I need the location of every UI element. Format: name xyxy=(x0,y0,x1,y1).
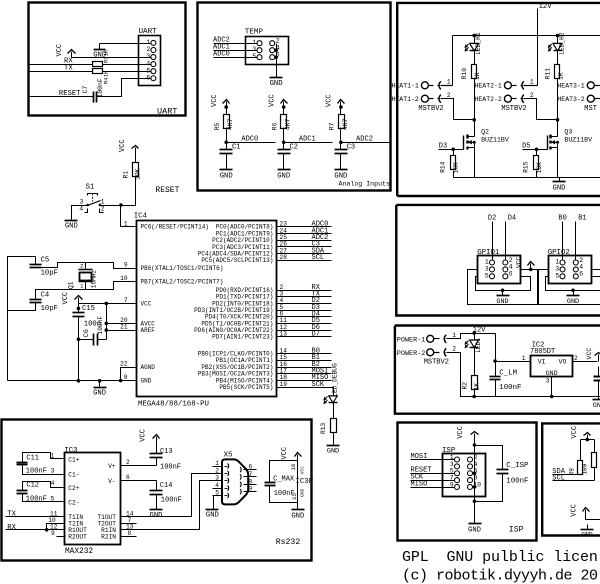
svg-text:PD7(AIN1/PCINT23): PD7(AIN1/PCINT23) xyxy=(212,334,273,341)
svg-text:VCC: VCC xyxy=(570,504,578,517)
pin 17 PB3(MOSI/OC2A/PCINT3) net MOSI xyxy=(277,373,332,375)
svg-text:VCC: VCC xyxy=(326,94,334,107)
svg-text:D2: D2 xyxy=(488,214,496,222)
wire HEAT2-2 to Q3 drain xyxy=(524,99,558,120)
capacitor C_ISP 100nF xyxy=(475,446,503,470)
frame UART section xyxy=(29,3,186,116)
svg-text:7: 7 xyxy=(249,471,253,478)
svg-text:Q1: Q1 xyxy=(68,281,75,289)
svg-text:100nF: 100nF xyxy=(160,463,181,471)
pin 27 PC4(ADC4/SDA/PCINT12) net SDA xyxy=(277,253,332,255)
svg-text:3: 3 xyxy=(252,46,256,53)
svg-text:1K: 1K xyxy=(104,49,110,56)
svg-text:IC4: IC4 xyxy=(134,213,148,221)
ground GND (leg ADC2) xyxy=(335,169,348,171)
svg-text:13: 13 xyxy=(280,331,288,338)
pin 26 PC3(ADC3/PCINT11) net C3 xyxy=(277,246,332,248)
wire C3 to GND xyxy=(340,154,342,170)
svg-text:R15: R15 xyxy=(523,161,530,172)
svg-text:100nF: 100nF xyxy=(274,490,295,498)
svg-text:3: 3 xyxy=(215,475,219,482)
power VCC (IC2 out) xyxy=(598,355,600,362)
svg-text:7805DT: 7805DT xyxy=(530,348,555,356)
wire LED to R13 xyxy=(333,403,335,419)
svg-text:12V: 12V xyxy=(539,3,553,11)
svg-text:MSTBV2: MSTBV2 xyxy=(501,105,526,113)
svg-text:C15: C15 xyxy=(82,305,95,313)
frame ISP section xyxy=(398,423,537,541)
svg-text:LED_H1: LED_H1 xyxy=(475,32,482,55)
resistor R3 xyxy=(93,62,103,67)
svg-text:2: 2 xyxy=(215,467,219,474)
svg-text:MEGA48/88/168-PU: MEGA48/88/168-PU xyxy=(138,400,209,408)
svg-text:R2IN: R2IN xyxy=(101,534,116,541)
svg-text:100nF: 100nF xyxy=(97,78,104,97)
wire Q2 source to rail xyxy=(474,152,476,178)
svg-text:3: 3 xyxy=(146,53,150,60)
svg-text:Q3: Q3 xyxy=(564,128,572,135)
wire R13 to GND xyxy=(333,433,335,446)
svg-text:1: 1 xyxy=(252,39,256,46)
ground GND (C14) xyxy=(150,509,163,511)
svg-text:GND: GND xyxy=(553,185,566,193)
svg-text:2: 2 xyxy=(126,459,130,466)
svg-text:2: 2 xyxy=(276,37,280,44)
svg-text:R6: R6 xyxy=(271,122,278,130)
resistor R15 10K xyxy=(536,150,538,156)
svg-text:VCC: VCC xyxy=(516,257,523,268)
resistor R1 10K xyxy=(133,163,139,177)
svg-text:GND: GND xyxy=(93,390,106,398)
ground GND (I2C lower) xyxy=(587,525,589,530)
svg-text:VCC: VCC xyxy=(299,466,305,475)
svg-text:R7: R7 xyxy=(329,122,336,130)
resistor R10b (edge) xyxy=(592,453,597,468)
wire RX to R1OUT xyxy=(6,529,65,531)
svg-text:4: 4 xyxy=(51,480,55,487)
wire SCL xyxy=(553,480,595,482)
ground GND (IC3P) xyxy=(292,509,305,511)
wire VCC down through ISP to GND xyxy=(474,439,476,524)
pin 15 PB1(OC1A/PCINT1) net B1 xyxy=(277,360,332,362)
pin 10 PB7(XTAL2/TOSC2/PCINT7) xyxy=(114,281,137,283)
pin 18 PB4(MISO/PCINT4) net MISO xyxy=(277,380,332,382)
svg-text:GND: GND xyxy=(291,512,304,520)
pin 25 PC2(ADC2/PCINT10) net ADC2 xyxy=(277,240,332,242)
pin 3 PD1(TXD/PCINT17) net TX xyxy=(277,296,332,298)
svg-text:5: 5 xyxy=(555,272,559,279)
pin 21 AREF xyxy=(107,330,137,332)
pin 23 PC0(ADC0/PCINT8) net ADC0 xyxy=(277,226,332,228)
wire B1 to GPIO2 pin2 xyxy=(575,222,577,261)
svg-text:1: 1 xyxy=(80,283,84,290)
svg-text:SCL: SCL xyxy=(552,475,565,483)
svg-text:VCC: VCC xyxy=(457,426,465,439)
svg-text:5: 5 xyxy=(146,67,150,74)
svg-text:Rs232: Rs232 xyxy=(276,538,301,547)
svg-text:C1-: C1- xyxy=(68,472,79,479)
svg-text:1: 1 xyxy=(51,453,55,460)
wire XTAL1 net xyxy=(36,263,137,269)
pin 19 PB5(SCK/PCINT5) net SCK xyxy=(277,387,332,389)
svg-text:100nF: 100nF xyxy=(97,316,104,335)
svg-text:PB7(XTAL2/TOSC2/PCINT7): PB7(XTAL2/TOSC2/PCINT7) xyxy=(141,278,224,285)
svg-text:C12: C12 xyxy=(26,481,39,489)
pin X5-9 xyxy=(244,491,257,493)
wire POWER-2 to GND rail xyxy=(447,353,600,397)
svg-text:R14: R14 xyxy=(439,161,446,172)
frame GPIO section xyxy=(396,205,600,316)
svg-text:ADC2: ADC2 xyxy=(356,136,373,144)
wire C5 top to gnd loop xyxy=(35,257,37,265)
svg-text:6: 6 xyxy=(249,464,253,471)
wire VCC loop GPIO2 xyxy=(539,270,600,305)
svg-text:GND: GND xyxy=(270,80,283,88)
svg-text:2: 2 xyxy=(146,46,150,53)
svg-text:AREF: AREF xyxy=(141,327,156,334)
svg-text:GND: GND xyxy=(65,222,78,230)
svg-text:RESET: RESET xyxy=(155,186,179,195)
wire AVCC riser xyxy=(106,304,108,340)
pin X5-1 xyxy=(213,466,222,468)
power VCC (GPIO) xyxy=(529,268,533,272)
svg-text:1: 1 xyxy=(124,220,128,227)
pin X5-5 xyxy=(213,495,222,497)
svg-text:6: 6 xyxy=(146,74,150,81)
pin 13 PD7(AIN1/PCINT23) net D7 xyxy=(277,336,332,338)
wire C1 to GND xyxy=(226,154,228,170)
svg-text:C1+: C1+ xyxy=(68,456,79,463)
wire GPIO1 pin4 to VCC and GPIO2 pin3 xyxy=(521,269,549,271)
pin 9 PB6(XTAL1/TOSC1/PCINT6) xyxy=(114,268,137,270)
wire gate D5 xyxy=(523,149,548,151)
wire HEAT1-1 to 12V rail xyxy=(441,85,453,87)
svg-text:C14: C14 xyxy=(160,482,173,490)
wire RX xyxy=(30,64,93,66)
wire VCC to R5 xyxy=(226,108,228,115)
wire D2 to GPIO1 pin1 xyxy=(492,222,494,261)
svg-text:C5: C5 xyxy=(41,256,50,264)
node ADC1 xyxy=(282,141,286,145)
svg-text:2: 2 xyxy=(452,346,456,353)
wire ADC0 to TEMP pin5 xyxy=(214,57,258,59)
svg-text:9: 9 xyxy=(249,486,253,493)
svg-text:VCC: VCC xyxy=(56,44,64,57)
resistor R9 100 xyxy=(578,461,583,475)
svg-text:C13: C13 xyxy=(160,448,173,456)
wire LED_H2 to R11 xyxy=(557,51,559,65)
svg-text:B0: B0 xyxy=(558,214,566,222)
svg-text:ADC0: ADC0 xyxy=(241,136,258,144)
svg-text:1: 1 xyxy=(447,79,451,86)
svg-text:PC6(/RESET/PCINT14): PC6(/RESET/PCINT14) xyxy=(141,224,209,231)
node reset junction xyxy=(119,203,123,207)
wire R7 to node xyxy=(340,128,342,143)
svg-text:4: 4 xyxy=(79,206,83,213)
svg-text:HEAT1-2: HEAT1-2 xyxy=(392,96,419,103)
wire GND loop GPIO2 xyxy=(546,277,600,291)
svg-text:1: 1 xyxy=(215,460,219,467)
wire pin1 VI xyxy=(496,361,531,363)
wire IC3P to GND xyxy=(297,461,299,510)
svg-text:GND: GND xyxy=(299,488,305,497)
node 12V xyxy=(472,331,476,335)
switch S1 pin2 stub xyxy=(100,209,104,213)
wire MISO xyxy=(411,487,455,489)
wire D4 to GPIO1 pin2 xyxy=(505,222,507,261)
capacitor C7 100nF xyxy=(93,92,95,103)
svg-text:LED_H2: LED_H2 xyxy=(559,32,566,55)
svg-text:C_MAX: C_MAX xyxy=(273,476,295,484)
ground GND (GPIO1) xyxy=(501,289,505,293)
wire T2OUT stub xyxy=(121,523,137,525)
wire net ADC2 xyxy=(341,142,391,144)
svg-text:10pF: 10pF xyxy=(41,305,58,313)
wire LED_H1 to R10 xyxy=(474,51,476,65)
frame Power section xyxy=(395,326,600,414)
wire VCC to pin7 xyxy=(79,303,137,305)
svg-text:UART: UART xyxy=(157,107,177,117)
pin 7 VCC xyxy=(79,303,137,305)
ground GND (TEMP) xyxy=(270,77,283,79)
wire net ADC1 xyxy=(284,142,333,144)
svg-text:4: 4 xyxy=(215,482,219,489)
svg-text:C_ISP: C_ISP xyxy=(506,462,529,470)
svg-text:GND: GND xyxy=(141,377,152,384)
svg-text:PB6(XTAL1/TOSC1/PCINT6): PB6(XTAL1/TOSC1/PCINT6) xyxy=(141,265,224,272)
wire SCK to LED_DEBUG xyxy=(332,388,334,396)
svg-text:VCC: VCC xyxy=(571,426,579,439)
svg-text:8: 8 xyxy=(124,374,128,381)
svg-text:HEAT2-2: HEAT2-2 xyxy=(475,96,502,103)
resistor R10 1K xyxy=(472,65,477,79)
switch S1 lever xyxy=(88,201,101,206)
pin 24 PC1(ADC1/PCINT9) net ADC1 xyxy=(277,233,332,235)
ground GND (C9) xyxy=(598,397,600,400)
wire RESET to C7 xyxy=(30,96,94,98)
svg-text:PB5(SCK/PCINT5): PB5(SCK/PCINT5) xyxy=(219,384,273,391)
svg-text:4: 4 xyxy=(146,60,150,67)
wire GND rail (IC4) xyxy=(8,380,121,382)
svg-text:HEAT1-1: HEAT1-1 xyxy=(392,83,419,90)
wire R10 to Q2 drain xyxy=(474,79,476,137)
svg-text:GND: GND xyxy=(277,173,290,181)
svg-text:GND: GND xyxy=(150,512,163,520)
svg-text:1K: 1K xyxy=(104,70,110,77)
ground GND (UART) xyxy=(99,44,101,50)
wire XTAL2 net xyxy=(36,282,137,300)
svg-text:VCC: VCC xyxy=(211,94,219,107)
transistor Q3 BUZ11BV xyxy=(547,136,549,150)
svg-text:GND: GND xyxy=(220,173,233,181)
pin X5-4 xyxy=(213,488,222,490)
svg-text:S1: S1 xyxy=(86,183,95,191)
svg-text:SCK: SCK xyxy=(312,381,325,389)
LED LED1 xyxy=(474,334,476,341)
svg-text:6: 6 xyxy=(126,474,130,481)
wire AGND hook xyxy=(121,368,137,381)
pin 28 PC5(ADC5/SCLPCINT13) net SCL xyxy=(277,260,332,262)
svg-text:IC3P: IC3P xyxy=(295,478,313,486)
svg-text:R10: R10 xyxy=(461,68,468,79)
resistor R4 xyxy=(93,69,103,74)
wire ADC2 to TEMP pin1 xyxy=(214,43,258,45)
svg-text:C11: C11 xyxy=(26,454,39,462)
pin 16 PB2(XSS/OC1B/PCINT2) net B2 xyxy=(277,367,332,369)
wire VCC to pullups xyxy=(581,439,595,441)
svg-text:1K: 1K xyxy=(558,72,565,80)
wire gate D3 xyxy=(439,149,464,151)
svg-text:VCC: VCC xyxy=(281,447,289,460)
pin 2 PD0(RXD/PCINT16) net RX xyxy=(277,290,332,292)
svg-text:MSTBV2: MSTBV2 xyxy=(418,105,443,113)
wire VCC to R6 xyxy=(283,108,285,115)
resistor R11 1K xyxy=(555,65,560,79)
svg-text:C3: C3 xyxy=(347,144,355,152)
transistor Q2 BUZ11BV xyxy=(463,136,465,150)
pin 14 PB0(ICP1/CLKO/PCINT0) net B0 xyxy=(277,353,332,355)
svg-text:Analog Inputs: Analog Inputs xyxy=(339,180,390,187)
frame Analog Inputs section xyxy=(198,3,391,191)
ground GND (GPIO2) xyxy=(571,289,575,293)
svg-text:100nF: 100nF xyxy=(26,496,47,504)
wire HEAT1-2 to Q2 drain xyxy=(441,99,475,120)
wire T2IN hook xyxy=(47,524,65,530)
svg-text:GND: GND xyxy=(206,512,219,520)
wire C4 bottom to gnd loop xyxy=(8,303,36,311)
svg-text:R11: R11 xyxy=(544,68,551,79)
pin X5-7 xyxy=(244,476,257,478)
svg-text:VCC: VCC xyxy=(119,139,127,152)
svg-text:100nF: 100nF xyxy=(161,497,182,505)
ground GND (IC4) xyxy=(99,381,101,388)
svg-text:1: 1 xyxy=(146,39,150,46)
pin 12 PD6(AIN0/OC0A/PCINT22) net D6 xyxy=(277,330,332,332)
wire C15 to gnd rail xyxy=(78,317,80,381)
svg-text:GND: GND xyxy=(581,532,592,539)
node ADC0 xyxy=(224,141,228,145)
wire X5 pin5 to GND xyxy=(213,496,215,510)
svg-text:TX: TX xyxy=(7,510,16,518)
svg-text:ADC1: ADC1 xyxy=(299,136,316,144)
svg-text:5: 5 xyxy=(485,272,489,279)
wire B0 to GPIO2 pin1 xyxy=(562,222,564,261)
svg-text:3: 3 xyxy=(80,199,84,206)
svg-text:6: 6 xyxy=(509,271,513,278)
wire VCC loop GPIO1 xyxy=(468,270,538,305)
wire S1 to GND xyxy=(72,206,88,221)
svg-text:TEMP: TEMP xyxy=(245,29,264,37)
pin 20 AVCC xyxy=(107,323,137,325)
svg-text:VCC: VCC xyxy=(140,429,148,442)
wire TEMP pins 2-4-6 to GND xyxy=(276,44,278,78)
svg-text:C2+: C2+ xyxy=(68,485,79,492)
wire R5 to node xyxy=(226,128,228,143)
wire ADC1 to TEMP pin3 xyxy=(214,50,258,52)
ground GND (heater) xyxy=(559,178,561,182)
svg-text:HEAT3-1: HEAT3-1 xyxy=(557,83,584,90)
svg-text:19: 19 xyxy=(280,381,288,388)
svg-text:LED1: LED1 xyxy=(475,338,482,353)
svg-text:R2: R2 xyxy=(462,382,469,390)
svg-text:6: 6 xyxy=(579,271,583,278)
wire pin2 VO to VCC xyxy=(573,361,598,363)
resistor R6 4K7 xyxy=(281,115,287,129)
wire SDA xyxy=(553,474,581,476)
resistor R5 4K7 xyxy=(224,115,230,129)
wire R3 to pin4 xyxy=(103,64,152,66)
svg-text:22: 22 xyxy=(120,361,128,368)
pin 6 PD4(T0/XCK/PCINT20) net D4 xyxy=(277,316,332,318)
resistor R2 1K xyxy=(472,376,478,390)
svg-text:2: 2 xyxy=(80,262,84,269)
svg-text:VCC: VCC xyxy=(586,348,593,360)
wire TX to T1IN xyxy=(6,516,65,518)
svg-text:16: 16 xyxy=(290,464,297,471)
svg-text:R2OUT: R2OUT xyxy=(68,534,87,541)
svg-text:MAX232: MAX232 xyxy=(65,548,93,556)
svg-text:VCC: VCC xyxy=(141,300,152,307)
svg-text:8: 8 xyxy=(249,478,253,485)
svg-text:IC3: IC3 xyxy=(64,447,77,455)
svg-text:GND: GND xyxy=(546,370,558,377)
svg-text:2: 2 xyxy=(574,355,578,362)
wire TX xyxy=(30,71,93,73)
svg-text:GPL GNU pulblic licen: GPL GNU pulblic licen xyxy=(402,549,598,566)
svg-text:POWER-2: POWER-2 xyxy=(397,350,426,358)
svg-text:1K: 1K xyxy=(474,72,481,80)
capacitor C9 (edge, partial) xyxy=(598,367,600,377)
svg-text:D7: D7 xyxy=(312,331,320,339)
svg-text:8: 8 xyxy=(128,530,132,537)
frame I2C section xyxy=(542,423,600,535)
wire net ADC0 xyxy=(227,142,276,144)
svg-text:GND: GND xyxy=(468,526,481,534)
wire T1OUT to X5 pin2 xyxy=(121,474,222,517)
wire 12V rail xyxy=(453,35,600,37)
ground GND (S1) xyxy=(65,220,78,222)
wire source rail xyxy=(454,177,600,179)
svg-text:VCC: VCC xyxy=(269,94,277,107)
svg-text:GND: GND xyxy=(593,402,600,410)
svg-text:MST: MST xyxy=(584,105,597,113)
ground GND (ISP) xyxy=(469,523,482,525)
ground GND (leg ADC1) xyxy=(278,169,291,171)
wire GND loop GPIO1 xyxy=(476,277,531,291)
svg-text:B1: B1 xyxy=(578,214,586,222)
svg-text:POWER-1: POWER-1 xyxy=(397,337,426,345)
svg-text:GND: GND xyxy=(334,173,347,181)
wire VCC lower right xyxy=(586,516,600,520)
svg-text:X5: X5 xyxy=(224,451,233,459)
capacitor C15 100nF xyxy=(77,307,81,311)
wire R11 to Q3 drain xyxy=(557,79,559,137)
svg-text:C4: C4 xyxy=(41,292,50,300)
svg-text:R1: R1 xyxy=(123,171,130,179)
svg-text:7: 7 xyxy=(124,297,128,304)
svg-text:V+: V+ xyxy=(108,463,116,470)
resistor R7 4K7 xyxy=(339,115,345,129)
svg-text:C1: C1 xyxy=(232,144,240,152)
svg-text:SCL: SCL xyxy=(312,254,325,262)
svg-text:C_LM: C_LM xyxy=(499,370,517,378)
wire V- pin6 xyxy=(121,480,157,482)
frame Heater section xyxy=(397,3,600,196)
svg-text:28: 28 xyxy=(280,254,288,261)
node ADC2 xyxy=(339,141,343,145)
wire R4 to pin5 xyxy=(103,71,152,73)
svg-text:VO: VO xyxy=(559,358,567,365)
